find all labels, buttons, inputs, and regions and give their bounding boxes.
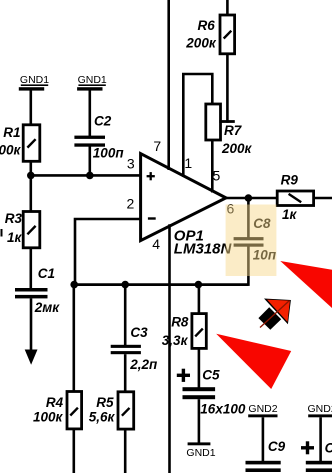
svg-text:GND1: GND1 [20,74,49,86]
node junction (C2/pin3) [86,172,94,180]
svg-text:R7: R7 [224,123,243,138]
wire node to R3 top [29,175,32,212]
svg-text:5,6к: 5,6к [89,410,116,425]
node junction (output/C8/R9) [245,194,253,202]
wire bus to R8 [198,285,201,315]
svg-text:R9: R9 [281,173,299,188]
wire pin 7 supply [167,0,170,170]
svg-text:GND1: GND1 [186,447,215,459]
wire R8 to C5 [198,348,201,388]
wire C3 to R5 [124,354,127,393]
svg-text:R8: R8 [171,315,189,330]
wire noninverting input to pin 3 [31,174,141,177]
node junction (bus/R8) [195,281,203,289]
svg-text:1к: 1к [282,207,298,222]
svg-text:100к: 100к [33,410,64,425]
svg-text:5: 5 [213,168,221,184]
op-amp U1 triangle [141,154,226,241]
wire C5 to ground [198,399,201,443]
svg-text:200к: 200к [221,141,253,156]
resistor R8 [192,314,206,349]
wire tap bar into R7 side [219,120,235,123]
wire feedback bus [74,283,249,286]
svg-text:4: 4 [152,236,160,252]
capacitor C10 (clipped) [306,461,332,472]
wire R3 bottom to C1 [29,248,32,289]
wire R7 bottom to pin 5 [211,140,214,193]
svg-text:R3: R3 [5,211,23,226]
node junction (bus/C3) [121,281,129,289]
capacitor C5 [183,387,216,399]
svg-text:16x100: 16x100 [200,402,246,417]
plus polarity mark C10 [301,441,314,454]
svg-text:R6: R6 [198,18,216,33]
plus sign (noninverting input) [147,172,155,180]
capacitor C2 [74,136,105,147]
ground GND1 (below C5) [186,442,215,459]
wire R6 top supply [226,0,229,16]
wire R9 to right edge [314,197,332,200]
svg-text:7: 7 [153,138,161,154]
svg-text:1: 1 [184,155,192,171]
wire R6 bottom [226,54,229,123]
wire R1 bottom to node [29,161,32,177]
svg-text:C1: C1 [38,266,55,281]
plus polarity mark C5 [177,369,190,382]
node junction (R1/R3/pin3) [27,172,35,180]
off-page arrow (signal out) [25,350,38,365]
editor cursor icon [258,299,291,330]
resistor R3 [23,212,40,248]
resistor R5 [118,392,134,429]
wire output to C8 [247,198,250,238]
wire GND1 to R1 top [29,90,32,126]
svg-text:C2: C2 [94,114,112,129]
svg-text:100п: 100п [93,146,125,161]
wire op-amp output pin 6 [224,197,278,200]
resistor R9 [277,191,313,206]
svg-text:2,2п: 2,2п [129,357,158,372]
ground GND2 (above C9) [248,403,278,417]
annotation arrow to C8 [280,261,332,308]
resistor R4 [67,392,82,429]
clipped character at image edge [1,229,3,237]
wire C1 to arrow [30,298,33,351]
wire pin 4 supply down [168,224,171,473]
svg-text:GND2: GND2 [308,403,332,415]
svg-text:3: 3 [127,156,135,172]
svg-text:00к: 00к [0,143,21,158]
svg-text:2мк: 2мк [34,300,60,315]
svg-text:GND1: GND1 [78,74,107,86]
resistor R6 [220,15,235,54]
capacitor C9 [246,461,281,472]
ground GND1 (left, above R1) [19,74,49,90]
svg-text:R1: R1 [3,125,20,140]
ground GND2 (above C10) [308,403,332,417]
wire pin 1 loop to R7 [183,74,212,177]
svg-text:R5: R5 [96,395,114,410]
svg-text:3,3к: 3,3к [162,333,189,348]
wire R5 to bottom edge [124,429,127,473]
minus sign (inverting input) [148,217,156,219]
svg-text:C: C [325,441,332,456]
node junction (pin2/R4 bus) [70,281,78,289]
resistor R7 [206,104,221,140]
wire pin 2 (inverting input) [75,219,141,285]
resistor R1 [23,125,40,162]
svg-text:GND2: GND2 [248,403,277,415]
capacitor C8 [234,237,264,247]
ground GND1 (above C2) [77,74,107,90]
wire C8 to feedback bus [247,247,250,286]
wire GND2 to C10 [319,417,322,462]
capacitor C1 [15,288,48,298]
svg-text:C9: C9 [268,439,286,454]
svg-text:2: 2 [127,195,135,211]
wire bus to R4 [73,285,76,393]
wire GND2 to C9 [262,417,265,462]
svg-text:200к: 200к [185,36,217,51]
svg-text:C3: C3 [130,325,148,340]
svg-text:C5: C5 [202,368,220,383]
highlight box over C8 [226,205,277,277]
wire bus to C3 [124,285,127,346]
wire R4 to bottom edge [73,429,76,473]
svg-text:R4: R4 [46,395,64,410]
annotation arrow to R8 [216,334,291,389]
capacitor C3 [111,345,141,354]
svg-text:LM318N: LM318N [174,240,233,257]
svg-text:1к: 1к [7,230,23,245]
wire GND1 to C2 [89,90,92,136]
wire C2 to node [89,146,92,177]
